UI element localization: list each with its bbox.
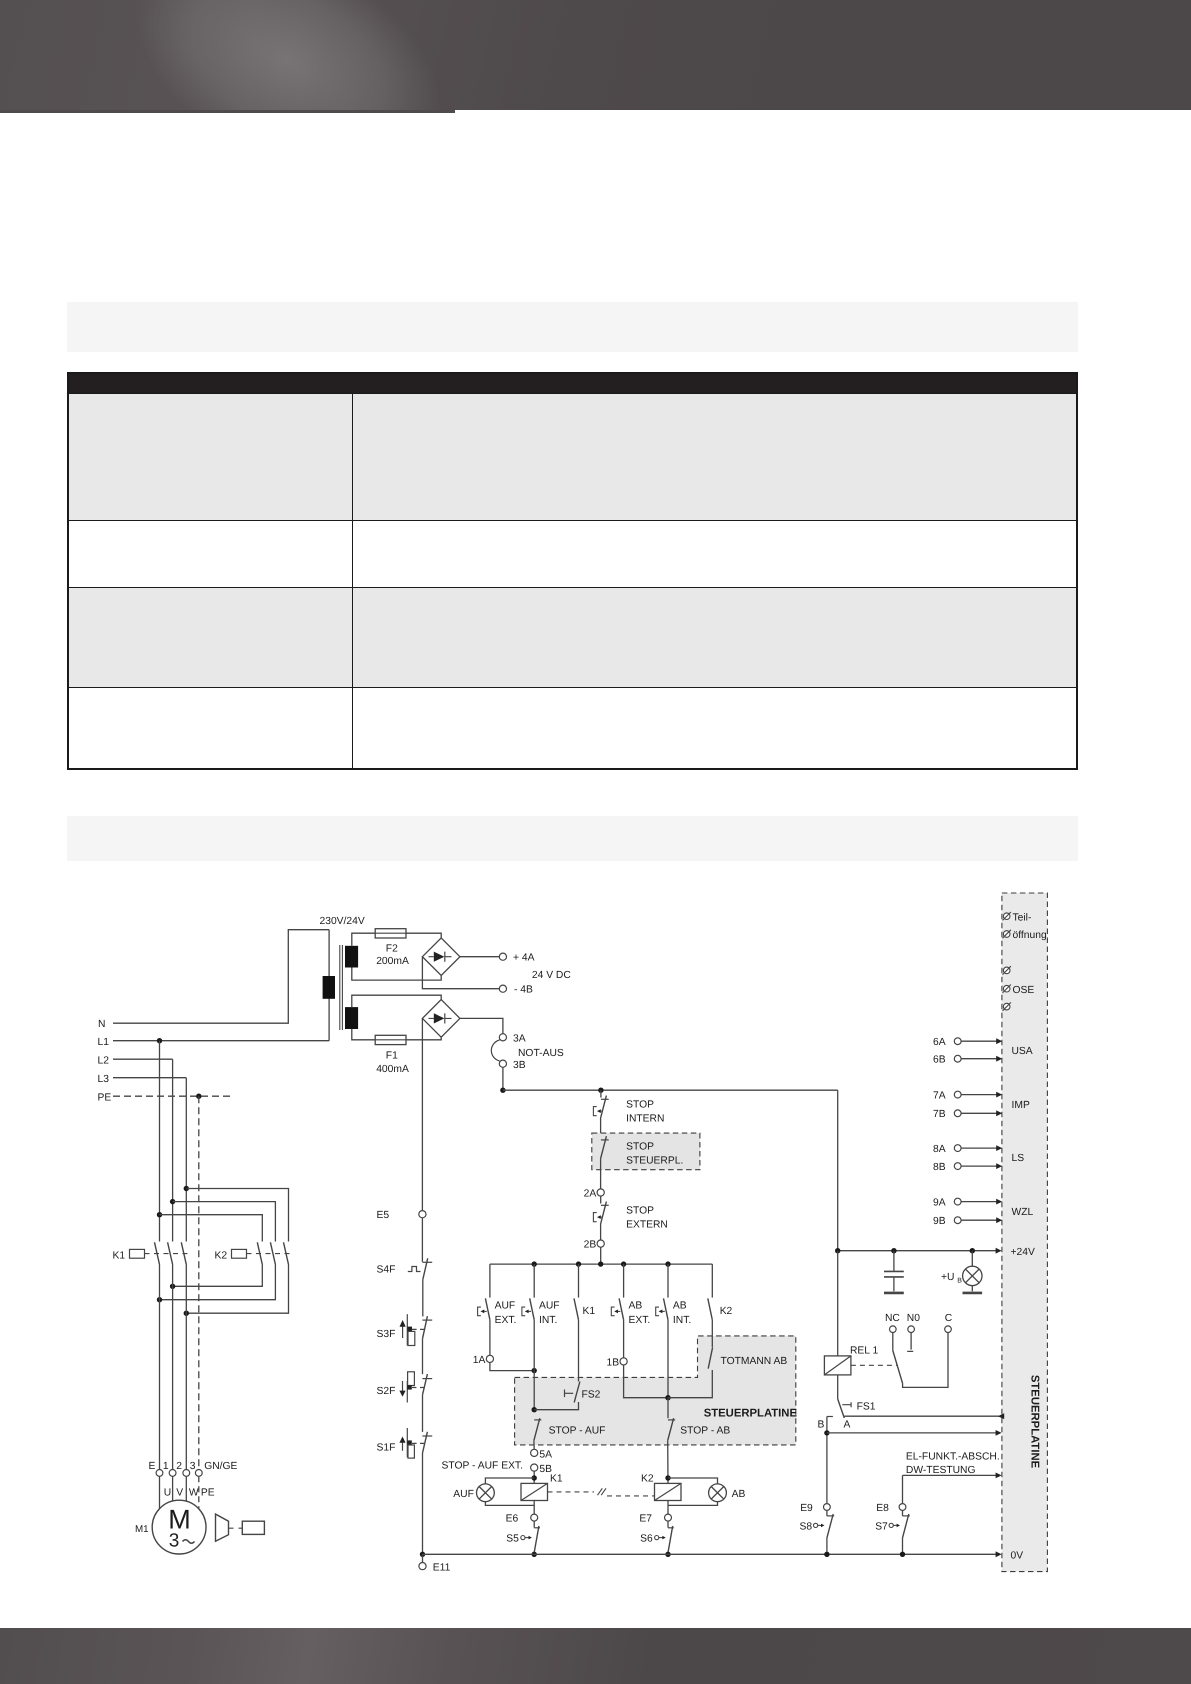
motor terminal E/U [156, 1470, 163, 1477]
wire rectifier B1 output to 3A [460, 1018, 503, 1033]
terminal Teiloeffnung pin 1 [1003, 913, 1010, 920]
contactor K1 contact pole 1 [155, 1242, 160, 1264]
switch STOP STEUERPL (NC) [601, 1139, 609, 1141]
junction K2 branch 0V [665, 1552, 670, 1557]
svg-text:7B: 7B [933, 1109, 946, 1120]
wire E7 to S6 [667, 1521, 669, 1528]
terminal OSE pin 3 [1003, 1003, 1010, 1010]
wire bus to K1 aux contact [578, 1264, 580, 1298]
terminal E11 [419, 1563, 426, 1570]
switch STOP-AUF (NC) [534, 1419, 541, 1421]
svg-text:3A: 3A [513, 1034, 526, 1045]
section band 2 [67, 816, 1078, 861]
svg-text:GN/GE: GN/GE [204, 1461, 237, 1472]
wire NC stub [892, 1333, 894, 1351]
contact B tick [827, 1416, 833, 1418]
wire +24V to REL1 coil [837, 1251, 839, 1356]
contactor K2 contact pole 3 [284, 1242, 289, 1264]
svg-text:L1: L1 [98, 1037, 110, 1048]
junction phase U merge [157, 1297, 162, 1302]
switch S8 [827, 1515, 834, 1517]
wire test line down to E8 [902, 1475, 904, 1503]
svg-text:A: A [844, 1419, 851, 1430]
wire STOP-AB to K2 coil [667, 1441, 669, 1484]
svg-text:E: E [149, 1461, 156, 1472]
contactor K1 contact pole 3 [181, 1242, 186, 1264]
svg-text:PE: PE [98, 1093, 112, 1104]
wire secondary2 top to rectifier [352, 995, 441, 1007]
svg-text:230V/24V: 230V/24V [320, 916, 365, 927]
wire 0V bus [423, 1553, 999, 1555]
svg-text:AUF: AUF [539, 1301, 560, 1312]
svg-text:B: B [957, 1277, 962, 1284]
contactor K1 linkage dashes [145, 1253, 191, 1255]
wire E8 to S7 [902, 1510, 904, 1516]
svg-text:V: V [176, 1487, 183, 1498]
wire S8 to 0V [826, 1538, 828, 1554]
wire N to transformer primary [113, 930, 329, 1024]
motor M1 circle [152, 1500, 206, 1554]
junction +24V lamp tap [970, 1248, 975, 1253]
table [67, 372, 1078, 770]
switch S1F (NC, position up) [422, 1435, 432, 1437]
svg-text:E6: E6 [506, 1514, 519, 1525]
junction E11 [420, 1552, 425, 1557]
wire bus corner to K2 aux contact [711, 1264, 713, 1298]
wire N0 stub [907, 1333, 913, 1352]
terminal E6 [531, 1514, 538, 1521]
wire PE dashed into motor [198, 1476, 200, 1509]
wire B down [826, 1417, 828, 1504]
switch S4F (NC, impulse) [422, 1261, 432, 1263]
svg-text:5A: 5A [539, 1449, 552, 1460]
ground bar capacitor [884, 1292, 904, 1295]
svg-text:OSE: OSE [1013, 985, 1035, 996]
svg-text:FS1: FS1 [857, 1402, 876, 1413]
wire phase W to motor [185, 1265, 187, 1470]
junction 1B/K2/AB INT [665, 1395, 670, 1400]
wire TOTMANN to junction [668, 1370, 712, 1398]
svg-text:STOP: STOP [626, 1100, 654, 1111]
contactor K2 coil box [232, 1249, 247, 1258]
svg-text:K1: K1 [113, 1251, 126, 1262]
svg-text:E11: E11 [433, 1563, 451, 1574]
terminal 1B [620, 1358, 627, 1365]
lamp +Us supply indicator [971, 1251, 973, 1267]
contact K2 auxiliary (NO) [708, 1298, 713, 1319]
wire FS2 return to STOP-AUF [534, 1402, 578, 1410]
svg-text:6A: 6A [933, 1037, 946, 1048]
svg-text:7A: 7A [933, 1091, 946, 1102]
motor terminal 3/PE [195, 1470, 202, 1477]
svg-text:0V: 0V [1011, 1550, 1024, 1561]
switch TOTMANN AB [708, 1347, 712, 1368]
switch AUF INT (NO pushbutton) [530, 1298, 535, 1319]
svg-text:EXT.: EXT. [495, 1315, 517, 1326]
svg-text:AUF: AUF [453, 1489, 474, 1500]
horn resistor box [242, 1521, 264, 1534]
wire 1A joins AUF INT [490, 1363, 534, 1371]
svg-text:INTERN: INTERN [626, 1114, 664, 1125]
svg-text:INT.: INT. [539, 1315, 557, 1326]
wire 3B down to control rail [502, 1067, 504, 1090]
terminal 5A [531, 1449, 538, 1456]
wire AB INT down [667, 1320, 669, 1398]
svg-text:2A: 2A [584, 1189, 597, 1200]
switch STOP INTERN (NC pushbutton) [601, 1098, 609, 1100]
terminal E7 [665, 1514, 672, 1521]
wire B line to board [827, 1432, 999, 1434]
svg-text:öffnung: öffnung [1013, 930, 1047, 941]
svg-text:E9: E9 [800, 1503, 813, 1514]
contact K1 auxiliary (NO) [574, 1298, 579, 1319]
svg-text:NC: NC [885, 1313, 900, 1324]
junction L3 loop tap [184, 1186, 189, 1191]
wire AUF EXT to 1A [489, 1320, 491, 1356]
wire bus to AUF EXT contact [489, 1264, 491, 1298]
svg-text:M1: M1 [135, 1524, 149, 1535]
svg-text:STEUERPL.: STEUERPL. [626, 1156, 683, 1167]
junction phase V merge [170, 1284, 175, 1289]
svg-text:+24V: +24V [1011, 1247, 1035, 1258]
svg-text:STOP - AUF EXT.: STOP - AUF EXT. [442, 1461, 523, 1472]
wire S2F to S1F [422, 1395, 424, 1432]
0V arrow into board [996, 1551, 1002, 1557]
switch S7 [903, 1515, 910, 1517]
contactor K1 coil box [130, 1249, 145, 1258]
wire E8 test line to board [903, 1474, 999, 1476]
capacitor C1 [893, 1251, 895, 1271]
switch AB EXT (NO pushbutton) [619, 1298, 624, 1319]
junction lamp AUF tap [532, 1475, 537, 1480]
svg-text:200mA: 200mA [376, 956, 409, 967]
svg-text:S2F: S2F [377, 1386, 396, 1397]
junction bus K1 [576, 1261, 581, 1266]
junction L1 phase tap [157, 1038, 162, 1043]
svg-text:TOTMANN AB: TOTMANN AB [721, 1356, 788, 1367]
switch AB INT (NO pushbutton) [664, 1298, 669, 1319]
wire loop L2 to K2 contact 2 [173, 1202, 276, 1242]
svg-text:K1: K1 [583, 1306, 596, 1317]
wire L3 drop [113, 1078, 186, 1242]
ground bar lamp [963, 1292, 983, 1295]
terminal N0 [908, 1326, 915, 1333]
svg-text:K1: K1 [550, 1474, 563, 1485]
svg-text:3: 3 [190, 1461, 196, 1472]
wire AB EXT to 1B [623, 1320, 625, 1358]
junction S7 0V [900, 1552, 905, 1557]
svg-text:9B: 9B [933, 1216, 946, 1227]
motor terminal 1/V [169, 1470, 176, 1477]
svg-text:K2: K2 [720, 1306, 733, 1317]
wire control bus [490, 1263, 712, 1265]
svg-text:1: 1 [163, 1461, 169, 1472]
horn link dashes [229, 1527, 243, 1529]
transformer T1 core [340, 945, 343, 1030]
lamp AUF [477, 1484, 495, 1502]
svg-text:1A: 1A [473, 1355, 486, 1366]
wire rail to STOP INTERN [600, 1090, 602, 1097]
svg-text:AUF: AUF [495, 1301, 516, 1312]
wire PE dashed drop [198, 1096, 200, 1469]
lamp AB wiring bottom [668, 1502, 718, 1506]
switch S5 [534, 1527, 540, 1529]
wire L1 phase drop [159, 1041, 161, 1242]
wire K2 coil to E7 [667, 1501, 669, 1515]
terminal 4B [499, 985, 506, 992]
switch AUF EXT (NO pushbutton) [485, 1298, 490, 1319]
wire secondary2 bottom through fuse F1 [352, 1029, 441, 1040]
wire STOP-AUF to 5A [533, 1441, 535, 1450]
junction bus 2B [598, 1261, 603, 1266]
terminal E9 [824, 1504, 831, 1511]
junction PE tap [196, 1094, 201, 1099]
wire bus to AB EXT contact [623, 1264, 625, 1298]
svg-text:C: C [945, 1313, 953, 1324]
svg-text:S6: S6 [640, 1534, 653, 1545]
terminal 2B [597, 1240, 604, 1247]
svg-text:1B: 1B [607, 1357, 620, 1368]
relay K1 coil [521, 1483, 548, 1500]
svg-text:8A: 8A [933, 1144, 946, 1155]
STEUERPLATINE right column box [1002, 893, 1048, 1572]
svg-text:E8: E8 [876, 1503, 889, 1514]
junction L1 loop tap [157, 1212, 162, 1217]
fuse F2 [375, 929, 406, 938]
wire S7 to 0V [902, 1538, 904, 1554]
svg-text:3B: 3B [513, 1060, 526, 1071]
transformer T1 secondary winding 1 [345, 946, 358, 968]
junction FS2 return [532, 1407, 537, 1412]
mechanical interlock dashes K1-K2 [548, 1491, 595, 1493]
wire E6 to S5 [533, 1521, 535, 1528]
wire L2 drop [113, 1059, 173, 1241]
switch S6 [668, 1527, 674, 1529]
wire control supply rail horizontal [503, 1089, 838, 1091]
svg-text:STOP: STOP [626, 1142, 654, 1153]
terminal OSE pin 2 [1003, 985, 1010, 992]
wire L1 to transformer primary [113, 930, 329, 1041]
wire AUF INT down into board [533, 1320, 535, 1410]
wire phase V to motor [172, 1265, 174, 1470]
svg-text:DW-TESTUNG: DW-TESTUNG [906, 1465, 976, 1476]
svg-text:2B: 2B [584, 1240, 597, 1251]
junction +24V capacitor tap [891, 1248, 896, 1253]
lamp AB [709, 1484, 727, 1502]
horn/buzzer symbol [216, 1514, 229, 1541]
svg-text:S4F: S4F [377, 1265, 396, 1276]
svg-text:E5: E5 [377, 1210, 390, 1221]
terminal 5B [531, 1464, 538, 1471]
terminal 1A [486, 1355, 493, 1362]
svg-text:U: U [164, 1487, 171, 1498]
transformer T1 secondary winding 2 [345, 1007, 358, 1029]
terminal OSE pin 1 [1003, 967, 1010, 974]
junction phase W merge [184, 1311, 189, 1316]
terminal E8 [899, 1504, 906, 1511]
wire K2 contact to TOTMANN switch [711, 1320, 713, 1347]
svg-text:+ 4A: + 4A [513, 953, 535, 964]
svg-text:INT.: INT. [673, 1315, 691, 1326]
wire secondary1 top to rectifier [352, 933, 441, 946]
relay K2 coil [655, 1483, 682, 1500]
svg-text:REL 1: REL 1 [850, 1345, 879, 1356]
junction 1A/AUF INT [532, 1368, 537, 1373]
svg-text:K2: K2 [215, 1251, 228, 1262]
contactor K2 contact pole 2 [270, 1242, 275, 1264]
terminal 2A [597, 1189, 604, 1196]
contactor K2 contact pole 1 [257, 1242, 262, 1264]
junction +24V left [835, 1248, 840, 1253]
svg-text:3: 3 [169, 1531, 180, 1552]
svg-text:FS2: FS2 [582, 1390, 601, 1401]
svg-text:S5: S5 [506, 1534, 519, 1545]
svg-text:2: 2 [176, 1461, 182, 1472]
lamp AUF wiring bottom [485, 1502, 534, 1506]
wire bus to AUF INT contact [533, 1264, 535, 1298]
switch STOP EXTERN (NC pushbutton) [601, 1204, 609, 1206]
arrow B (into board) [996, 1430, 1002, 1436]
transformer T1 primary winding [323, 976, 335, 999]
svg-text:6B: 6B [933, 1055, 946, 1066]
+24V arrow into board [996, 1248, 1002, 1254]
NOT-AUS link arc [491, 1040, 499, 1061]
svg-text:EXT.: EXT. [629, 1315, 651, 1326]
contactor K1 contact pole 2 [168, 1242, 173, 1264]
wire terminals into motor [160, 1476, 187, 1508]
svg-text:STEUERPLATINE: STEUERPLATINE [704, 1408, 798, 1420]
svg-text:400mA: 400mA [376, 1064, 409, 1075]
wire to STOP STEUERPL [600, 1118, 602, 1136]
junction L2 loop tap [170, 1199, 175, 1204]
motor terminal 2/W [183, 1470, 190, 1477]
wire E9 to S8 [826, 1510, 828, 1516]
wire rectifier plus output [460, 956, 499, 958]
svg-text:S7: S7 [875, 1522, 888, 1533]
junction K1 branch 0V [532, 1552, 537, 1557]
svg-text:N0: N0 [907, 1313, 920, 1324]
svg-text:STOP: STOP [626, 1206, 654, 1217]
wire S4F to S3F [422, 1280, 424, 1317]
junction lamp AB tap [665, 1475, 670, 1480]
wire K1 contact to FS2 [578, 1320, 580, 1382]
wire PE dashed [113, 1095, 231, 1097]
arrow test line (into board) [996, 1473, 1002, 1479]
svg-text:- 4B: - 4B [514, 985, 533, 996]
junction 3B rail [500, 1088, 505, 1093]
wire STOP EXTERN to 2B [600, 1224, 602, 1240]
svg-text:+U: +U [941, 1272, 954, 1283]
switch FS1 changeover [838, 1399, 845, 1418]
fuse F1 [375, 1035, 406, 1044]
title band [67, 302, 1078, 352]
wire K2 pole2 output to phase U [160, 1265, 276, 1300]
relay REL1 coil [824, 1356, 851, 1375]
wire loop L3 to K2 contact 3 [186, 1189, 288, 1242]
terminal 4A [499, 953, 506, 960]
wire S3F to S2F [422, 1339, 424, 1374]
junction stop-intern branch [598, 1088, 603, 1093]
relay REL1 linkage dashes [851, 1364, 898, 1366]
terminal NC [890, 1326, 897, 1333]
svg-text:K2: K2 [641, 1474, 654, 1485]
svg-text:S8: S8 [800, 1522, 813, 1533]
lamp AUF wiring top [485, 1478, 534, 1484]
svg-text:NOT-AUS: NOT-AUS [518, 1048, 564, 1059]
svg-text:WZL: WZL [1012, 1207, 1034, 1218]
wire loop L1 to K2 contact 1 [160, 1215, 263, 1242]
switch STOP-AB (NC) [668, 1419, 675, 1421]
wire rectifier minus output [422, 957, 499, 989]
switch FS2 (end switch) [564, 1390, 566, 1398]
STEUERPLATINE control-board box (L-shape with TOTMANN AB) [515, 1336, 796, 1445]
wire REL1 coil to FS1 [837, 1375, 839, 1399]
svg-text:LS: LS [1012, 1153, 1025, 1164]
wire 2A to STOP EXTERN [600, 1196, 602, 1203]
wire to 2A [600, 1159, 602, 1189]
switch S2F (NC, position down) [422, 1378, 432, 1380]
svg-text:E7: E7 [639, 1514, 652, 1525]
lamp AB wiring top [668, 1478, 718, 1484]
wire phase U to motor [159, 1265, 161, 1470]
svg-text:N: N [98, 1019, 105, 1030]
svg-text:AB: AB [629, 1301, 643, 1312]
bridge rectifier B2 (24V DC) [422, 938, 460, 976]
svg-text:S1F: S1F [377, 1443, 396, 1454]
svg-text:AB: AB [673, 1301, 687, 1312]
svg-text:L3: L3 [98, 1074, 110, 1085]
svg-text:S3F: S3F [377, 1329, 396, 1340]
junction bus AB EXT [621, 1261, 626, 1266]
switch S3F (NC, position up) [422, 1319, 432, 1321]
svg-text:9A: 9A [933, 1198, 946, 1209]
svg-text:IMP: IMP [1012, 1100, 1030, 1111]
terminal C [945, 1326, 952, 1333]
wire S1F to 0V bus [422, 1453, 424, 1554]
wire bus to AB INT contact [667, 1264, 669, 1298]
relay REL1 changeover arm [893, 1351, 903, 1384]
wire 1B joins AB INT [624, 1365, 668, 1398]
svg-text:F2: F2 [386, 944, 398, 955]
wire K2 pole3 output to phase W [186, 1265, 288, 1314]
wire A line to board [844, 1415, 1004, 1417]
svg-text:24 V DC: 24 V DC [532, 970, 571, 981]
junction bus AB INT [665, 1261, 670, 1266]
svg-text:STEUERPLATINE: STEUERPLATINE [1029, 1375, 1041, 1469]
wire K2 pole1 output to phase V [173, 1265, 263, 1287]
wire secondary1 bottom to rectifier [352, 968, 441, 981]
wire +24V rail [838, 1250, 999, 1252]
svg-text:EL-FUNKT.-ABSCH.: EL-FUNKT.-ABSCH. [906, 1452, 1000, 1463]
svg-text:W: W [189, 1487, 199, 1498]
svg-text:L2: L2 [98, 1056, 110, 1067]
svg-text:STOP - AB: STOP - AB [680, 1426, 730, 1437]
wire STOP-AB above switch [667, 1398, 669, 1419]
bridge rectifier B1 (safety circuit) [422, 1000, 460, 1038]
svg-text:B: B [818, 1419, 825, 1430]
wire E11 stub [422, 1554, 424, 1562]
junction bus AUF INT [532, 1261, 537, 1266]
svg-text:F1: F1 [386, 1050, 398, 1061]
terminal 3A [499, 1034, 506, 1041]
wire K1 coil to E6 [533, 1501, 535, 1515]
junction S8 0V [824, 1552, 829, 1557]
contactor K2 linkage dashes [247, 1253, 293, 1255]
wire 2B to bus [600, 1247, 602, 1264]
wire C to arm pivot [903, 1333, 948, 1388]
junction B line [824, 1430, 829, 1435]
svg-text:EXTERN: EXTERN [626, 1220, 668, 1231]
